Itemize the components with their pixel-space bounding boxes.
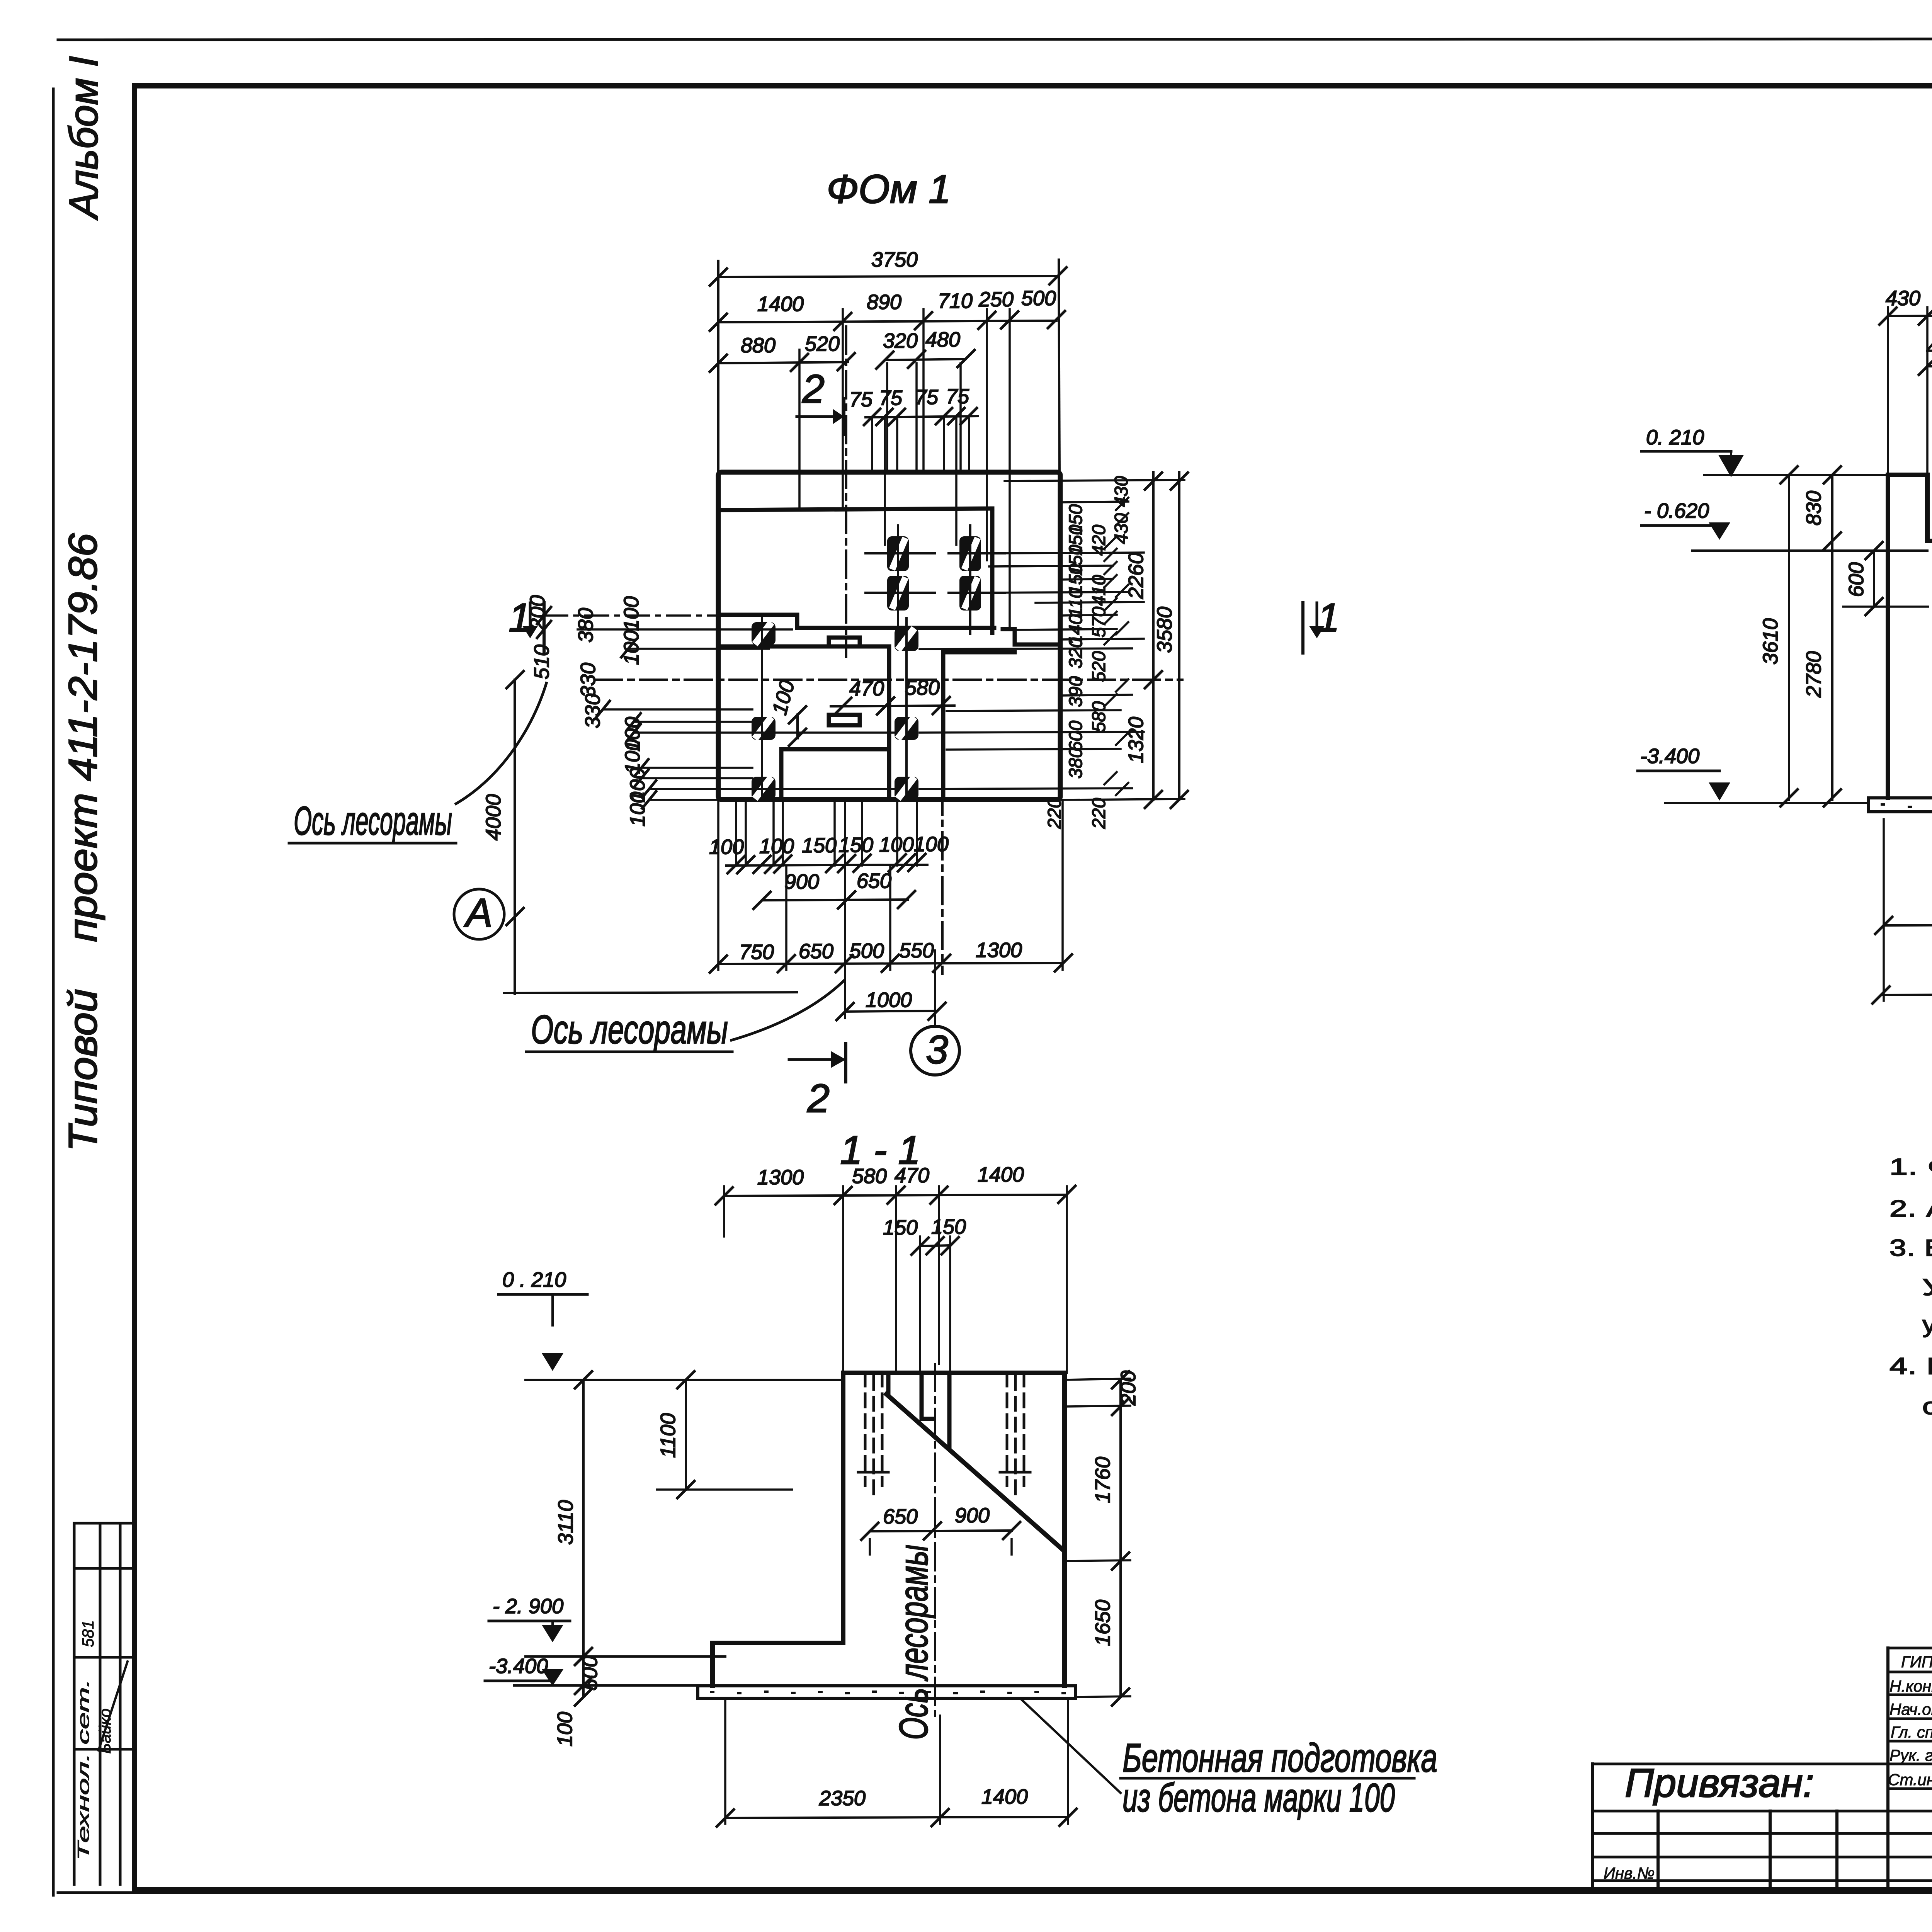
svg-text:380: 380 <box>1066 748 1086 779</box>
sheet outer thin border left <box>52 89 55 1895</box>
svg-text:1: 1 <box>1317 595 1340 640</box>
svg-text:650: 650 <box>883 1505 918 1528</box>
svg-text:1: 1 <box>509 595 531 640</box>
svg-text:75: 75 <box>849 388 873 411</box>
signature table grid <box>1888 1648 1932 1881</box>
svg-text:150: 150 <box>931 1215 966 1238</box>
dim row 100 100 150 150 100 100 <box>726 865 927 866</box>
anchor bolts lower-left pair <box>752 717 776 740</box>
dims 500 100 left <box>582 1656 585 1697</box>
svg-text:150: 150 <box>883 1216 918 1239</box>
plan bottom inner rectangle <box>781 749 889 798</box>
horizontal axis dash-dot (2260/1320 split) <box>595 679 1182 681</box>
svg-text:220: 220 <box>1089 798 1109 829</box>
bottom-left side table <box>74 1523 134 1884</box>
plan elevated part bottom edge <box>797 628 1014 629</box>
svg-text:1000: 1000 <box>866 988 912 1012</box>
right vertical dim lines <box>1152 472 1155 799</box>
dim 470 580 inside plan <box>831 706 954 706</box>
section 1-1 bottom slab <box>698 1686 1076 1698</box>
svg-text:2: 2 <box>807 1076 830 1121</box>
svg-text:110: 110 <box>1066 588 1086 617</box>
anchor bolt A1 top group <box>887 536 981 611</box>
svg-text:880: 880 <box>741 334 776 357</box>
section 1-1 vertical axis <box>934 1364 936 1716</box>
section 2-2 body outline <box>1888 475 1932 798</box>
svg-text:1. Фундамент ФОм1 замаркиров: 1. Фундамент ФОм1 замаркирован на листе … <box>1889 1154 1932 1180</box>
top dim row1 430/1260/570/720/600 <box>1888 315 1932 316</box>
plan middle strip pad lower <box>829 715 860 725</box>
extension verticals below plan <box>718 800 1063 1018</box>
svg-text:2: 2 <box>802 367 825 412</box>
dim row 1400/890/710/250/500 <box>718 321 1056 322</box>
svg-text:Типовой проект 411-2-179.8: Типовой проект 411-2-179.86 <box>61 533 105 1151</box>
section 1-1 diagonal <box>886 1394 1063 1550</box>
svg-text:330: 330 <box>581 694 604 728</box>
axis leader Ось лесорамы upper <box>456 683 546 804</box>
svg-text:-3.400: -3.400 <box>1640 745 1699 768</box>
svg-text:890: 890 <box>867 291 901 314</box>
svg-text:550: 550 <box>899 939 934 962</box>
svg-text:Укладку бетона вести горизон: Укладку бетона вести горизонтальными сло… <box>1922 1274 1932 1300</box>
hidden bolts 1-1 <box>858 1373 1031 1499</box>
plan elevated part right edge <box>990 509 995 633</box>
dim row 3750 <box>718 276 1058 277</box>
svg-text:Ось лесорамы: Ось лесорамы <box>294 799 452 844</box>
dim 1100 (1-1) <box>685 1380 687 1490</box>
anchor bolt mid-left <box>752 622 776 645</box>
svg-text:580: 580 <box>852 1165 887 1188</box>
svg-text:2. Армирование фундамента ФОм: 2. Армирование фундамента ФОм1 см. лист … <box>1889 1196 1932 1221</box>
svg-text:-3.400: -3.400 <box>489 1655 548 1678</box>
svg-text:3750: 3750 <box>871 248 918 271</box>
section 1-1 pocket <box>888 1373 949 1449</box>
svg-text:1100: 1100 <box>656 1413 680 1458</box>
dim row 320/480 <box>885 359 966 360</box>
svg-text:100: 100 <box>879 833 914 856</box>
top dims 1-1: 1300 580 470 1400 <box>724 1195 1067 1196</box>
plan right middle step <box>1015 629 1059 645</box>
dim row 750 650 500 550 1300 <box>718 963 1063 964</box>
svg-text:Гл. спец.: Гл. спец. <box>1891 1723 1932 1741</box>
svg-text:710: 710 <box>938 289 973 313</box>
section 1-1 body outline <box>713 1373 1065 1686</box>
svg-text:3110: 3110 <box>554 1500 577 1545</box>
plan outer outline <box>718 472 1060 799</box>
right dims 1-1: 200 1760 1650 <box>1119 1380 1122 1697</box>
svg-text:320: 320 <box>883 329 918 352</box>
extension verticals for row2 <box>843 309 1010 630</box>
extension verticals 1-1 top <box>724 1186 1067 1373</box>
svg-text:Ось лесорамы: Ось лесорамы <box>891 1545 936 1740</box>
dim 3110 <box>582 1380 585 1656</box>
svg-text:830: 830 <box>1802 491 1825 526</box>
svg-text:- 2. 900: - 2. 900 <box>493 1595 563 1618</box>
svg-text:470: 470 <box>895 1164 929 1187</box>
svg-text:100: 100 <box>914 833 949 856</box>
top dim row2 430/420/520/460/520/580/220 <box>1927 365 1932 366</box>
svg-text:4. Разбивку анкерных болтов: 4. Разбивку анкерных болтов уточнить по … <box>1889 1353 1932 1379</box>
svg-text:ГИП: ГИП <box>1901 1653 1932 1671</box>
svg-text:ФОм 1: ФОм 1 <box>827 167 951 212</box>
svg-text:650: 650 <box>857 869 891 893</box>
svg-text:520: 520 <box>1089 651 1109 682</box>
svg-text:Технол. сет.: Технол. сет. <box>74 1679 92 1861</box>
svg-text:2260: 2260 <box>1124 553 1148 599</box>
slab dots <box>1882 804 1932 807</box>
svg-text:Нач.отд.: Нач.отд. <box>1889 1700 1932 1718</box>
leader to concrete note 1-1 <box>1020 1698 1121 1793</box>
svg-text:430: 430 <box>1886 287 1920 310</box>
svg-text:3580: 3580 <box>1153 607 1176 653</box>
signature slash <box>99 1662 128 1750</box>
svg-text:500: 500 <box>1021 287 1056 310</box>
section 2-2 bottom slab <box>1869 798 1932 812</box>
svg-text:1300: 1300 <box>976 939 1022 962</box>
svg-text:200: 200 <box>1117 1371 1140 1406</box>
svg-text:410: 410 <box>1089 575 1109 606</box>
svg-text:2350: 2350 <box>819 1787 866 1810</box>
axis circle A <box>454 889 504 939</box>
bottom dims 1-1: 2350 1400 <box>725 1817 1068 1818</box>
dims 150 150 <box>920 1245 950 1246</box>
svg-text:900: 900 <box>955 1504 990 1527</box>
bolt centerlines top group <box>866 526 1005 634</box>
svg-text:650: 650 <box>799 940 833 963</box>
svg-text:0. 210: 0. 210 <box>1646 426 1704 449</box>
svg-text:Альбом I: Альбом I <box>61 56 106 221</box>
svg-text:900: 900 <box>784 870 819 893</box>
svg-text:500: 500 <box>849 939 884 963</box>
svg-text:320: 320 <box>1066 638 1086 668</box>
svg-text:75: 75 <box>946 385 969 408</box>
svg-text:750: 750 <box>739 940 774 964</box>
svg-text:0 . 210: 0 . 210 <box>502 1268 566 1291</box>
dim row 900 650 <box>762 900 908 900</box>
svg-text:Ось лесорамы: Ось лесорамы <box>531 1007 728 1052</box>
svg-text:600: 600 <box>1066 721 1086 752</box>
dims 650 900 inside <box>870 1531 1012 1531</box>
svg-text:3: 3 <box>926 1027 948 1072</box>
svg-text:1300: 1300 <box>757 1166 804 1189</box>
svg-text:Рук. гр.: Рук. гр. <box>1889 1746 1932 1764</box>
svg-text:100: 100 <box>626 792 649 827</box>
dim row 75s <box>866 416 978 417</box>
section mark 1 right <box>1301 603 1304 653</box>
plan left step <box>719 615 797 628</box>
dim 600 small left <box>1873 551 1875 607</box>
svg-text:250: 250 <box>978 288 1014 311</box>
svg-text:150: 150 <box>838 833 873 857</box>
svg-text:581: 581 <box>79 1620 97 1647</box>
svg-text:75: 75 <box>879 386 903 410</box>
svg-text:1400: 1400 <box>757 293 804 316</box>
svg-text:- 0.620: - 0.620 <box>1644 499 1709 522</box>
main stamp right part <box>1592 1648 1932 1889</box>
svg-text:600: 600 <box>1845 562 1868 597</box>
plan lower right step <box>943 652 1015 798</box>
svg-text:Инв.№: Инв.№ <box>1604 1864 1655 1882</box>
svg-text:430: 430 <box>1111 476 1132 507</box>
svg-text:100: 100 <box>759 835 794 858</box>
svg-text:520: 520 <box>805 332 840 355</box>
svg-text:500: 500 <box>578 1656 602 1690</box>
svg-text:Привязан:: Привязан: <box>1625 1761 1814 1806</box>
bottom dims 2-2: 2260 1320 <box>1884 924 1932 925</box>
svg-text:100: 100 <box>709 835 744 859</box>
bolt column centerlines lower <box>762 614 906 799</box>
anchor bolt mid-center <box>895 628 918 651</box>
bottom frame line full <box>58 1891 1932 1894</box>
svg-text:оборудования .: оборудования . <box>1922 1393 1932 1419</box>
svg-text:420: 420 <box>1089 525 1109 556</box>
signature table labels <box>1888 1651 1932 1789</box>
svg-text:4000: 4000 <box>482 794 505 840</box>
svg-text:3610: 3610 <box>1759 618 1782 665</box>
plan middle strip boundary <box>719 646 889 749</box>
svg-text:480: 480 <box>925 328 960 351</box>
svg-text:510: 510 <box>530 645 553 679</box>
vertical axis dash-dot x=2190 <box>845 327 847 657</box>
svg-text:3. Бетонирование фундамента Ф: 3. Бетонирование фундамента ФОм 1 вести … <box>1889 1235 1932 1261</box>
svg-text:А: А <box>463 891 492 935</box>
extension verticals top 2-2 <box>1888 307 1932 541</box>
svg-text:330: 330 <box>577 663 600 697</box>
slab dots 1-1 <box>711 1692 1065 1693</box>
right small ticks <box>1104 498 1128 795</box>
svg-text:380: 380 <box>574 608 597 643</box>
svg-text:уплотнением глубинными вибра: уплотнением глубинными вибраторами <box>1922 1311 1932 1337</box>
svg-text:из бетона марки 100: из бетона марки 100 <box>1122 1776 1395 1820</box>
svg-text:1760: 1760 <box>1091 1457 1114 1503</box>
left vertical dims 2-2 <box>1788 475 1790 800</box>
svg-text:390: 390 <box>1066 676 1086 707</box>
svg-text:100: 100 <box>553 1712 577 1747</box>
section mark 2 bottom <box>844 1043 847 1082</box>
plan inner top line (elevated slab edge) <box>719 509 992 510</box>
axis circle 3 <box>911 1026 959 1075</box>
svg-text:100: 100 <box>620 596 643 631</box>
svg-text:1320: 1320 <box>1124 717 1148 763</box>
svg-text:Н.контр.: Н.контр. <box>1889 1677 1932 1695</box>
vertical machine axis x=2439 <box>941 653 944 974</box>
left tick marks <box>537 607 656 808</box>
section mark 1 left <box>543 603 546 653</box>
svg-text:100: 100 <box>620 630 643 665</box>
privyazan table <box>1592 1764 1888 1881</box>
svg-text:1400: 1400 <box>981 1785 1028 1808</box>
dim row 880/520 <box>718 362 848 363</box>
dim row 1000 <box>845 1011 937 1012</box>
svg-text:1650: 1650 <box>1091 1600 1114 1646</box>
plan middle strip pad upper <box>829 638 860 646</box>
dim 4000 vertical <box>514 680 516 994</box>
svg-text:Ст.инж: Ст.инж <box>1888 1770 1932 1789</box>
svg-text:2780: 2780 <box>1802 651 1825 698</box>
svg-text:1400: 1400 <box>978 1163 1024 1186</box>
svg-text:Бетонная подготовка: Бетонная подготовка <box>1122 1736 1437 1781</box>
sheet outer thin border top <box>58 39 1932 40</box>
axis leader Ось лесорамы lower <box>731 980 844 1040</box>
bottom dim 3580 <box>1881 994 1932 995</box>
svg-text:75: 75 <box>915 386 939 409</box>
svg-text:150: 150 <box>802 834 837 857</box>
anchor bolts lower-center pair <box>895 717 918 740</box>
